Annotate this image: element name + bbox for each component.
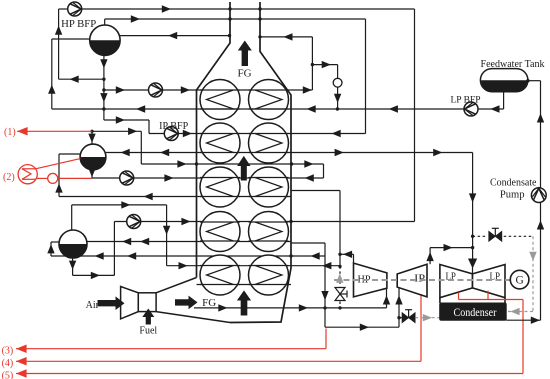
gray arrow bypass [336, 274, 343, 283]
wire cold reheat line to LP drum [51, 255, 325, 257]
heat exchanger coil row3 right [249, 167, 289, 207]
IP circulating pump [120, 171, 134, 185]
wire tank down to feed line [503, 92, 505, 109]
wire IP drum bottom outlet [91, 170, 93, 178]
red small circle [48, 173, 58, 183]
red line (1) [17, 130, 92, 132]
gas turbine compressor [121, 287, 139, 319]
wire reheat outlet line [194, 307, 387, 309]
heat exchanger coil row3 left [200, 167, 240, 207]
wire vent branch [312, 64, 337, 66]
wire LP bypass dashed to condenser [415, 317, 440, 319]
svg-text:Air: Air [86, 300, 100, 311]
svg-text:Condenser: Condenser [454, 305, 497, 319]
FG arrow top (stack) [238, 41, 252, 67]
HP BFP pump [68, 2, 82, 16]
Fuel inlet arrow [142, 309, 154, 325]
svg-text:FG: FG [237, 68, 251, 80]
IP BFP pump [164, 127, 178, 141]
wire row1 top / HP circulating line [104, 89, 313, 91]
LP inlet arrow [468, 259, 477, 269]
svg-text:(2): (2) [3, 172, 15, 183]
svg-text:Fuel: Fuel [139, 325, 157, 336]
wire IP BFP suction staircase [104, 119, 149, 121]
heat exchanger coil row5 right [249, 255, 289, 295]
feedwater tank [480, 69, 527, 92]
wire main steam to HP bypass [291, 190, 340, 192]
wire drum blowdown left [59, 78, 104, 80]
recirc valve [489, 231, 502, 241]
HRSG tower casing with stack [197, 2, 231, 278]
node HP downcomer tee 1 [102, 78, 105, 81]
node tank right [526, 79, 529, 82]
IP drum [80, 144, 106, 170]
wire HP steam down x414 [414, 9, 416, 222]
FG arrow bottom overlay [237, 291, 251, 316]
red line (2) lower [36, 177, 48, 179]
red line (5) [16, 373, 523, 375]
FG arrow bottom (flue gas up) [237, 291, 251, 316]
gray arrows recirc [529, 252, 536, 261]
heat exchanger coil row1 left [200, 80, 240, 120]
wire LP admission vertical [472, 153, 474, 263]
heat exchanger coil row1 right [249, 80, 289, 120]
heat exchanger coil row4 right [249, 212, 289, 252]
svg-text:LP BFP: LP BFP [451, 96, 481, 106]
red line (4) [16, 360, 421, 362]
FG arrow middle [237, 156, 250, 181]
svg-text:(5): (5) [2, 370, 14, 379]
heat exchanger coil row4 left [200, 212, 240, 252]
wire HP BFP suction [59, 8, 68, 10]
flow arrows [162, 5, 171, 12]
LP BFP pump [464, 102, 478, 116]
HP bypass valve [335, 288, 345, 295]
red heater circle (2) [18, 165, 37, 184]
wire IP exhaust riser [429, 248, 431, 265]
recirc dashed line [473, 235, 487, 237]
combustor [138, 293, 156, 312]
node bypass to reheat line [338, 306, 341, 309]
wire HP inlet jog [340, 253, 354, 255]
LP bypass valve [402, 313, 415, 323]
heat exchanger coil row5 left [200, 255, 240, 295]
wire LP bypass valve line [399, 317, 402, 319]
wire row4 bottom [87, 241, 291, 243]
FG arrow into HRSG [175, 296, 198, 310]
wire condensate outlet [506, 319, 540, 321]
FG arrow middle overlay [237, 156, 250, 181]
wire LP drum top outlet [71, 205, 73, 230]
wire row5 bottom [197, 284, 292, 286]
node vent to feed line [336, 107, 339, 110]
node attemperator wall tee [290, 162, 293, 165]
wire HP BFP discharge [68, 8, 415, 10]
condensate pump [531, 188, 546, 203]
wire row3 top / IP circulating line [92, 177, 324, 179]
wire row2 top / IP BFP discharge [149, 133, 366, 135]
shaft dashed line [334, 279, 510, 281]
condenser [440, 303, 507, 320]
node x325 reheat crossing [323, 306, 326, 309]
LP drum [59, 230, 87, 258]
HP drum [90, 25, 120, 55]
svg-text:Condensate: Condensate [490, 178, 537, 189]
wire long feedwater line L1 [52, 108, 504, 110]
svg-text:Pump: Pump [500, 190, 525, 201]
wire row4 top / HP steam line [114, 221, 414, 223]
svg-text:(1): (1) [4, 127, 16, 138]
wire branch into row5 top [339, 265, 341, 268]
wire HP drum downcomer [103, 55, 105, 120]
wire hot reheat riser x386 [386, 288, 388, 308]
HP circulating pump [149, 83, 163, 97]
svg-text:G: G [515, 275, 523, 287]
node HP steam tees [338, 253, 341, 256]
svg-text:Feedwater Tank: Feedwater Tank [481, 59, 545, 70]
wire LP drum left inlet [51, 241, 59, 243]
node valve tee x399 [397, 316, 400, 319]
wire HP drum steam line [104, 19, 106, 25]
wire condensate riser [540, 81, 542, 321]
node LP admission tees [471, 235, 474, 238]
generator G [510, 270, 529, 289]
svg-text:HP BFP: HP BFP [61, 19, 96, 30]
wire to HP circ pump [103, 89, 105, 91]
node IP feed tee [90, 130, 93, 133]
wire vent down [337, 87, 339, 109]
wire lower line to IP [325, 326, 399, 328]
red LP extraction lines [459, 299, 524, 301]
HP turbine [354, 263, 387, 297]
svg-text:(4): (4) [2, 358, 14, 369]
wire row3 bottom [59, 196, 291, 198]
IP turbine [397, 264, 427, 297]
red line (3) [16, 348, 326, 350]
wire mid line to attemperator jog [141, 163, 323, 165]
node riser tee [311, 63, 314, 66]
red line (2) to IP drum [36, 159, 81, 169]
shaft dash overlay [334, 279, 510, 281]
wire LP drum bottom outlet [72, 258, 74, 275]
wire cold reheat jog down x325 [324, 243, 326, 327]
Air inlet arrow [98, 296, 125, 310]
wire HP drum left feed [52, 38, 90, 40]
wire LP downcomer x166 [166, 205, 168, 266]
svg-text:(3): (3) [2, 345, 14, 356]
wire row2 bottom / LP steam line [106, 152, 473, 154]
LP turbine double flow [440, 265, 473, 298]
node chimney crossings [228, 7, 231, 10]
wire riser to HP drum [311, 37, 313, 90]
wire row5 top / main steam header [167, 265, 340, 267]
LP circulating pump [127, 215, 141, 229]
heat exchanger coil row2 left [200, 123, 240, 163]
wire superheat vertical x365 [365, 19, 367, 134]
wire IP drum left inlet [59, 153, 80, 155]
svg-text:IP BFP: IP BFP [159, 121, 188, 132]
gas turbine expansion duct to HRSG [156, 278, 196, 293]
wire HP bypass dashed [339, 266, 341, 286]
svg-text:IP: IP [414, 273, 425, 285]
wire IP drum feed line [92, 130, 141, 132]
heat exchanger coil row2 right [249, 123, 289, 163]
wire HP bypass lower [339, 302, 341, 308]
svg-text:FG: FG [202, 297, 216, 309]
vent valve circle [333, 78, 342, 87]
wire HP drum riser line [120, 35, 229, 37]
